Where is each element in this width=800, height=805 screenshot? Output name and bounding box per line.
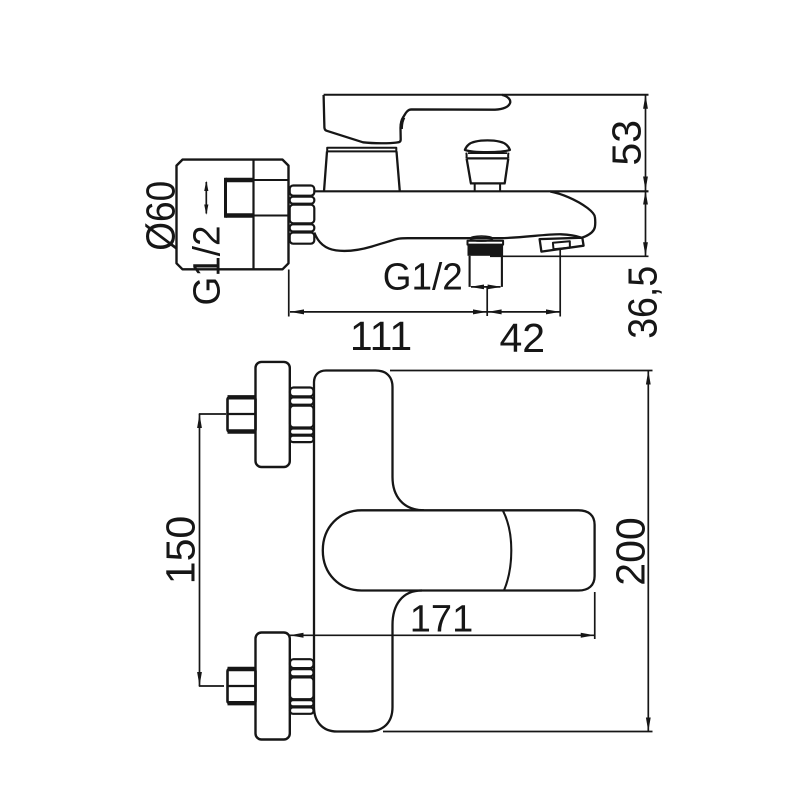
svg-text:G1/2: G1/2 — [187, 226, 229, 306]
svg-text:G1/2: G1/2 — [383, 257, 463, 299]
svg-text:111: 111 — [350, 313, 412, 359]
svg-text:36,5: 36,5 — [620, 266, 666, 339]
svg-text:Ø60: Ø60 — [137, 181, 183, 251]
svg-text:200: 200 — [608, 517, 654, 585]
svg-text:42: 42 — [499, 315, 545, 361]
svg-text:171: 171 — [410, 599, 473, 641]
svg-text:53: 53 — [604, 120, 650, 166]
svg-text:150: 150 — [158, 516, 204, 584]
